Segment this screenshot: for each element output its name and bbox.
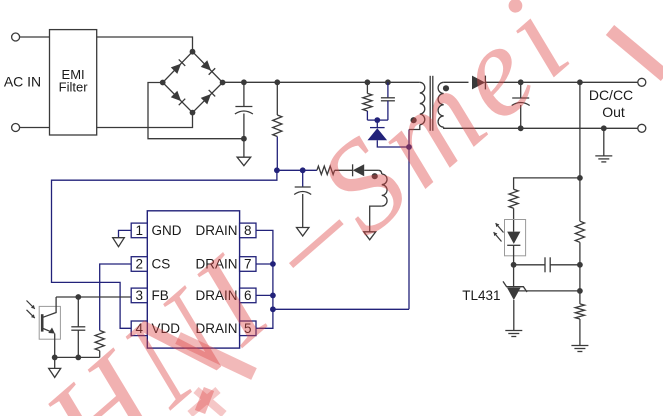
- svg-text:1: 1: [135, 223, 143, 238]
- svg-text:GND: GND: [152, 223, 182, 238]
- svg-text:DC/CC: DC/CC: [589, 87, 633, 103]
- svg-text:Out: Out: [602, 104, 625, 120]
- svg-text:Filter: Filter: [59, 80, 89, 95]
- svg-text:AC IN: AC IN: [4, 74, 41, 90]
- svg-text:2: 2: [135, 257, 143, 272]
- svg-text:TL431: TL431: [462, 288, 500, 303]
